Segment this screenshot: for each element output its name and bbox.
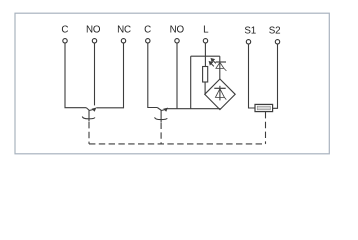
svg-text:C: C (144, 25, 151, 36)
wire C1 down and right to switch 1 (65, 43, 86, 108)
terminal S2 (275, 40, 279, 44)
wire from top rail corner down to bridge (LED axis) (219, 56, 221, 79)
wire C2 down and right to switch 2 (148, 43, 158, 108)
switch 1 contact arrowhead (92, 108, 97, 112)
wire resistor to bridge left vertex (204, 82, 206, 94)
switch 2 blade (157, 108, 161, 111)
terminal S1 (246, 40, 250, 44)
switch 2 contact arrowhead (163, 108, 168, 112)
lamp block top rail (191, 55, 220, 57)
wire NC1 down and left to switch 1 contact (96, 43, 123, 108)
terminal NO2 (175, 39, 179, 43)
wire S2 down and left to sensor box (273, 44, 278, 108)
svg-text:NC: NC (117, 25, 131, 36)
svg-text:S2: S2 (269, 26, 281, 37)
svg-text:NO: NO (170, 25, 185, 36)
LED D1 emission arrow 2 (211, 63, 214, 66)
lamp block bottom rail (167, 108, 220, 110)
diode inside bridge: zener tail (224, 97, 226, 99)
switch 1 contact arrow line (89, 109, 94, 110)
wire NO1 down (94, 43, 96, 105)
wire NO2 down to rail (176, 43, 178, 109)
diode inside bridge: cathode bar (214, 87, 225, 89)
diode inside bridge: triangle (215, 89, 224, 98)
switch 1 actuator arc (82, 117, 95, 119)
switch 1 pole (88, 110, 90, 121)
sensor box inner hatching (259, 107, 269, 110)
sensor box inner detail (257, 106, 270, 110)
terminal L (203, 39, 207, 43)
terminal NO1 (92, 39, 96, 43)
LED D1 tail (224, 68, 227, 71)
linkage dashed from sensor box (265, 112, 267, 144)
LED D1 triangle (216, 62, 224, 68)
frame border (15, 13, 329, 154)
lamp block left leg (190, 56, 192, 108)
switch 1 blade (86, 108, 89, 111)
linkage dashed from switch 1 pole (88, 122, 90, 144)
svg-text:NO: NO (86, 25, 101, 36)
svg-text:S1: S1 (244, 26, 256, 37)
linkage dashed from switch 2 pole (160, 123, 162, 144)
switch 2 pole (160, 110, 162, 122)
wire L down to resistor (204, 43, 206, 67)
svg-text:C: C (61, 25, 68, 36)
terminal NC1 (121, 39, 125, 43)
terminal C1 (63, 39, 67, 43)
terminal C2 (146, 39, 150, 43)
switch 2 contact arrow line (161, 109, 166, 110)
wire S1 down and right to sensor box (249, 44, 256, 108)
resistor R1 body (203, 67, 208, 83)
LED D1 emission arrow 1 (209, 59, 216, 67)
switch 2 actuator arc (155, 117, 168, 119)
bridge rectifier diamond (205, 79, 236, 110)
linkage dashed horizontal rail (89, 143, 266, 145)
diode inside bridge: stem (219, 86, 221, 101)
sensor box outer (255, 104, 273, 111)
svg-text:L: L (203, 25, 209, 36)
LED D1 cathode bar (216, 61, 226, 63)
